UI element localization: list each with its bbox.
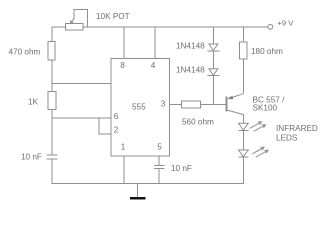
svg-text:2: 2: [114, 125, 119, 134]
wire pin 2 tie step: [99, 118, 111, 134]
wire between 1K and left capacitor: [51, 109, 53, 155]
svg-text:10 nF: 10 nF: [171, 164, 192, 173]
wire below left capacitor: [51, 159, 53, 184]
svg-text:1: 1: [121, 143, 126, 152]
transistor Q1 collector lead: [227, 110, 244, 115]
transistor Q1 base bar: [226, 97, 228, 112]
svg-text:470 ohm: 470 ohm: [9, 48, 41, 57]
svg-text:5: 5: [157, 143, 162, 152]
wire below bottom capacitor: [158, 169, 160, 184]
wire pin 6 horizontal: [52, 117, 111, 119]
wire between 470 ohm and 1K: [51, 60, 53, 92]
wire pin 7 horizontal: [52, 83, 111, 85]
LED D3 infrared: [239, 123, 249, 130]
svg-text:INFRARED: INFRARED: [276, 124, 318, 133]
diode D1 1N4148: [209, 44, 218, 51]
wire 560 ohm to transistor base: [201, 104, 227, 106]
wire pin 8 vertical: [123, 27, 125, 59]
svg-text:10 nF: 10 nF: [21, 153, 42, 162]
svg-text:8: 8: [120, 61, 125, 70]
svg-text:1K: 1K: [28, 98, 39, 107]
wire top-left horizontal to pot: [52, 26, 66, 28]
svg-text:3: 3: [161, 99, 166, 108]
svg-text:555: 555: [132, 103, 146, 112]
LED D4 emission arrows: [252, 147, 264, 154]
svg-text:LEDS: LEDS: [276, 134, 298, 143]
potentiometer R1 10K POT body: [66, 24, 84, 31]
svg-text:6: 6: [114, 112, 119, 121]
wire bottom ground rail: [52, 183, 244, 185]
wire diode branch top: [212, 27, 214, 44]
wire pin 3 to 560 ohm: [170, 104, 182, 106]
svg-text:1N4148: 1N4148: [176, 42, 205, 51]
wire left branch top vertical: [51, 27, 53, 42]
svg-text:+9 V: +9 V: [278, 19, 295, 28]
resistor R2 470 ohm body: [48, 42, 55, 61]
wire collector to LED1: [242, 114, 244, 123]
wire pin 4 vertical: [154, 27, 156, 59]
IC U1 555 body: [111, 59, 170, 157]
wire LED2 to ground rail: [242, 158, 244, 185]
capacitor C2 10 nF bottom plates: [154, 164, 165, 166]
ground symbol bar: [130, 197, 146, 200]
potentiometer wiper arrow: [70, 19, 74, 24]
wire between LEDs: [242, 131, 244, 150]
wire pin 5 vertical: [158, 156, 160, 165]
resistor R5 180 ohm body: [240, 42, 247, 59]
svg-text:560 ohm: 560 ohm: [182, 118, 214, 127]
wire pin 1 vertical: [123, 156, 125, 184]
LED D3 emission arrows: [250, 122, 262, 129]
+9V supply terminal circle: [268, 24, 273, 29]
svg-text:180 ohm: 180 ohm: [251, 47, 283, 56]
ground symbol stub: [136, 184, 138, 198]
resistor R3 1K body: [48, 92, 56, 110]
transistor Q1 emitter lead with arrow to base: [229, 94, 244, 99]
wire top rail from pot to +9V: [83, 26, 268, 28]
capacitor C1 10 nF left plates: [47, 154, 58, 156]
potentiometer wiper loop wire: [74, 10, 87, 28]
svg-text:1N4148: 1N4148: [176, 66, 205, 75]
wire between diodes: [212, 51, 214, 69]
wire 180 ohm branch top: [242, 27, 244, 42]
resistor R4 560 ohm body: [182, 101, 201, 108]
svg-text:4: 4: [151, 61, 156, 70]
wire below diodes to base node: [212, 76, 214, 105]
svg-text:10K POT: 10K POT: [96, 12, 130, 21]
LED D4 infrared: [239, 150, 249, 157]
wire 180 ohm to transistor emitter: [242, 59, 244, 94]
diode D2 1N4148: [209, 69, 218, 76]
svg-text:SK100: SK100: [253, 104, 278, 113]
